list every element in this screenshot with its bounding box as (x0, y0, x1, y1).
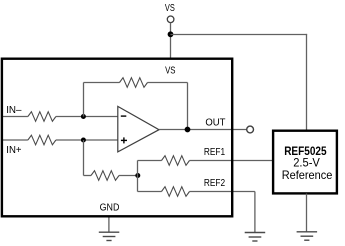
resistor R REF1 (162, 156, 190, 166)
wire REF2 to ground (190, 191, 255, 193)
junction output node (185, 127, 191, 133)
wire feedback horizontal right segment (148, 82, 188, 84)
svg-text:GND: GND (100, 203, 120, 214)
wire non-inverting node down (83, 140, 85, 176)
wire VS node to right (171, 34, 308, 36)
terminal VS (open circle) (167, 16, 174, 23)
ground symbol (main box GND) (99, 232, 120, 240)
resistor R REF2 (162, 187, 190, 197)
svg-text:REF1: REF1 (204, 147, 226, 158)
wire IN+ input (3, 139, 28, 141)
junction VS node (168, 31, 174, 37)
wire REF1 to REF5025 box (190, 160, 274, 162)
ground symbol (REF2) (245, 233, 266, 242)
op-amp plus sign (121, 139, 127, 141)
wire feedback horizontal left segment (84, 82, 120, 84)
junction non-inverting node (81, 138, 86, 143)
wire resistor to op-amp inverting input (56, 116, 118, 118)
svg-text:VS: VS (165, 65, 176, 76)
wire gain resistor to ref node (119, 175, 138, 177)
wire IN- input (3, 116, 28, 118)
wire to gain resistor (84, 175, 92, 177)
wire ref node down to REF2 line (137, 176, 139, 192)
wire resistor to op-amp non-inverting input (56, 139, 118, 141)
junction inverting node (81, 114, 86, 119)
resistor R gain (91, 171, 119, 181)
wire feedback vertical up from inverting node (83, 83, 85, 117)
voltage reference REF5025 box (273, 131, 337, 194)
svg-text:IN+: IN+ (6, 145, 21, 156)
wire GND pin to ground (108, 217, 110, 233)
svg-text:OUT: OUT (205, 117, 225, 128)
svg-text:VS: VS (165, 3, 175, 14)
junction ref node (135, 173, 140, 178)
wire ref node up to REF1 line (137, 161, 139, 176)
wire feedback vertical down to output node (187, 83, 189, 130)
resistor R input- (28, 112, 56, 122)
wire op-amp output to OUT terminal (159, 129, 247, 131)
wire REF5025 box to ground (306, 194, 308, 232)
wire REF1 left segment (138, 160, 162, 162)
resistor R input+ (28, 135, 56, 145)
svg-text:IN–: IN– (6, 105, 22, 116)
resistor R feedback (120, 78, 148, 88)
svg-text:REF2: REF2 (204, 178, 226, 189)
op-amp U1 (118, 106, 159, 151)
wire REF2 left segment (138, 191, 162, 193)
wire VS terminal to main box top (170, 23, 172, 58)
svg-text:Reference: Reference (282, 168, 333, 182)
wire down to REF5025 box top (306, 34, 308, 131)
main amplifier box (2, 59, 232, 217)
terminal OUT (open circle) (247, 126, 254, 133)
op-amp minus sign (121, 115, 127, 117)
ground symbol (REF5025) (297, 232, 318, 240)
